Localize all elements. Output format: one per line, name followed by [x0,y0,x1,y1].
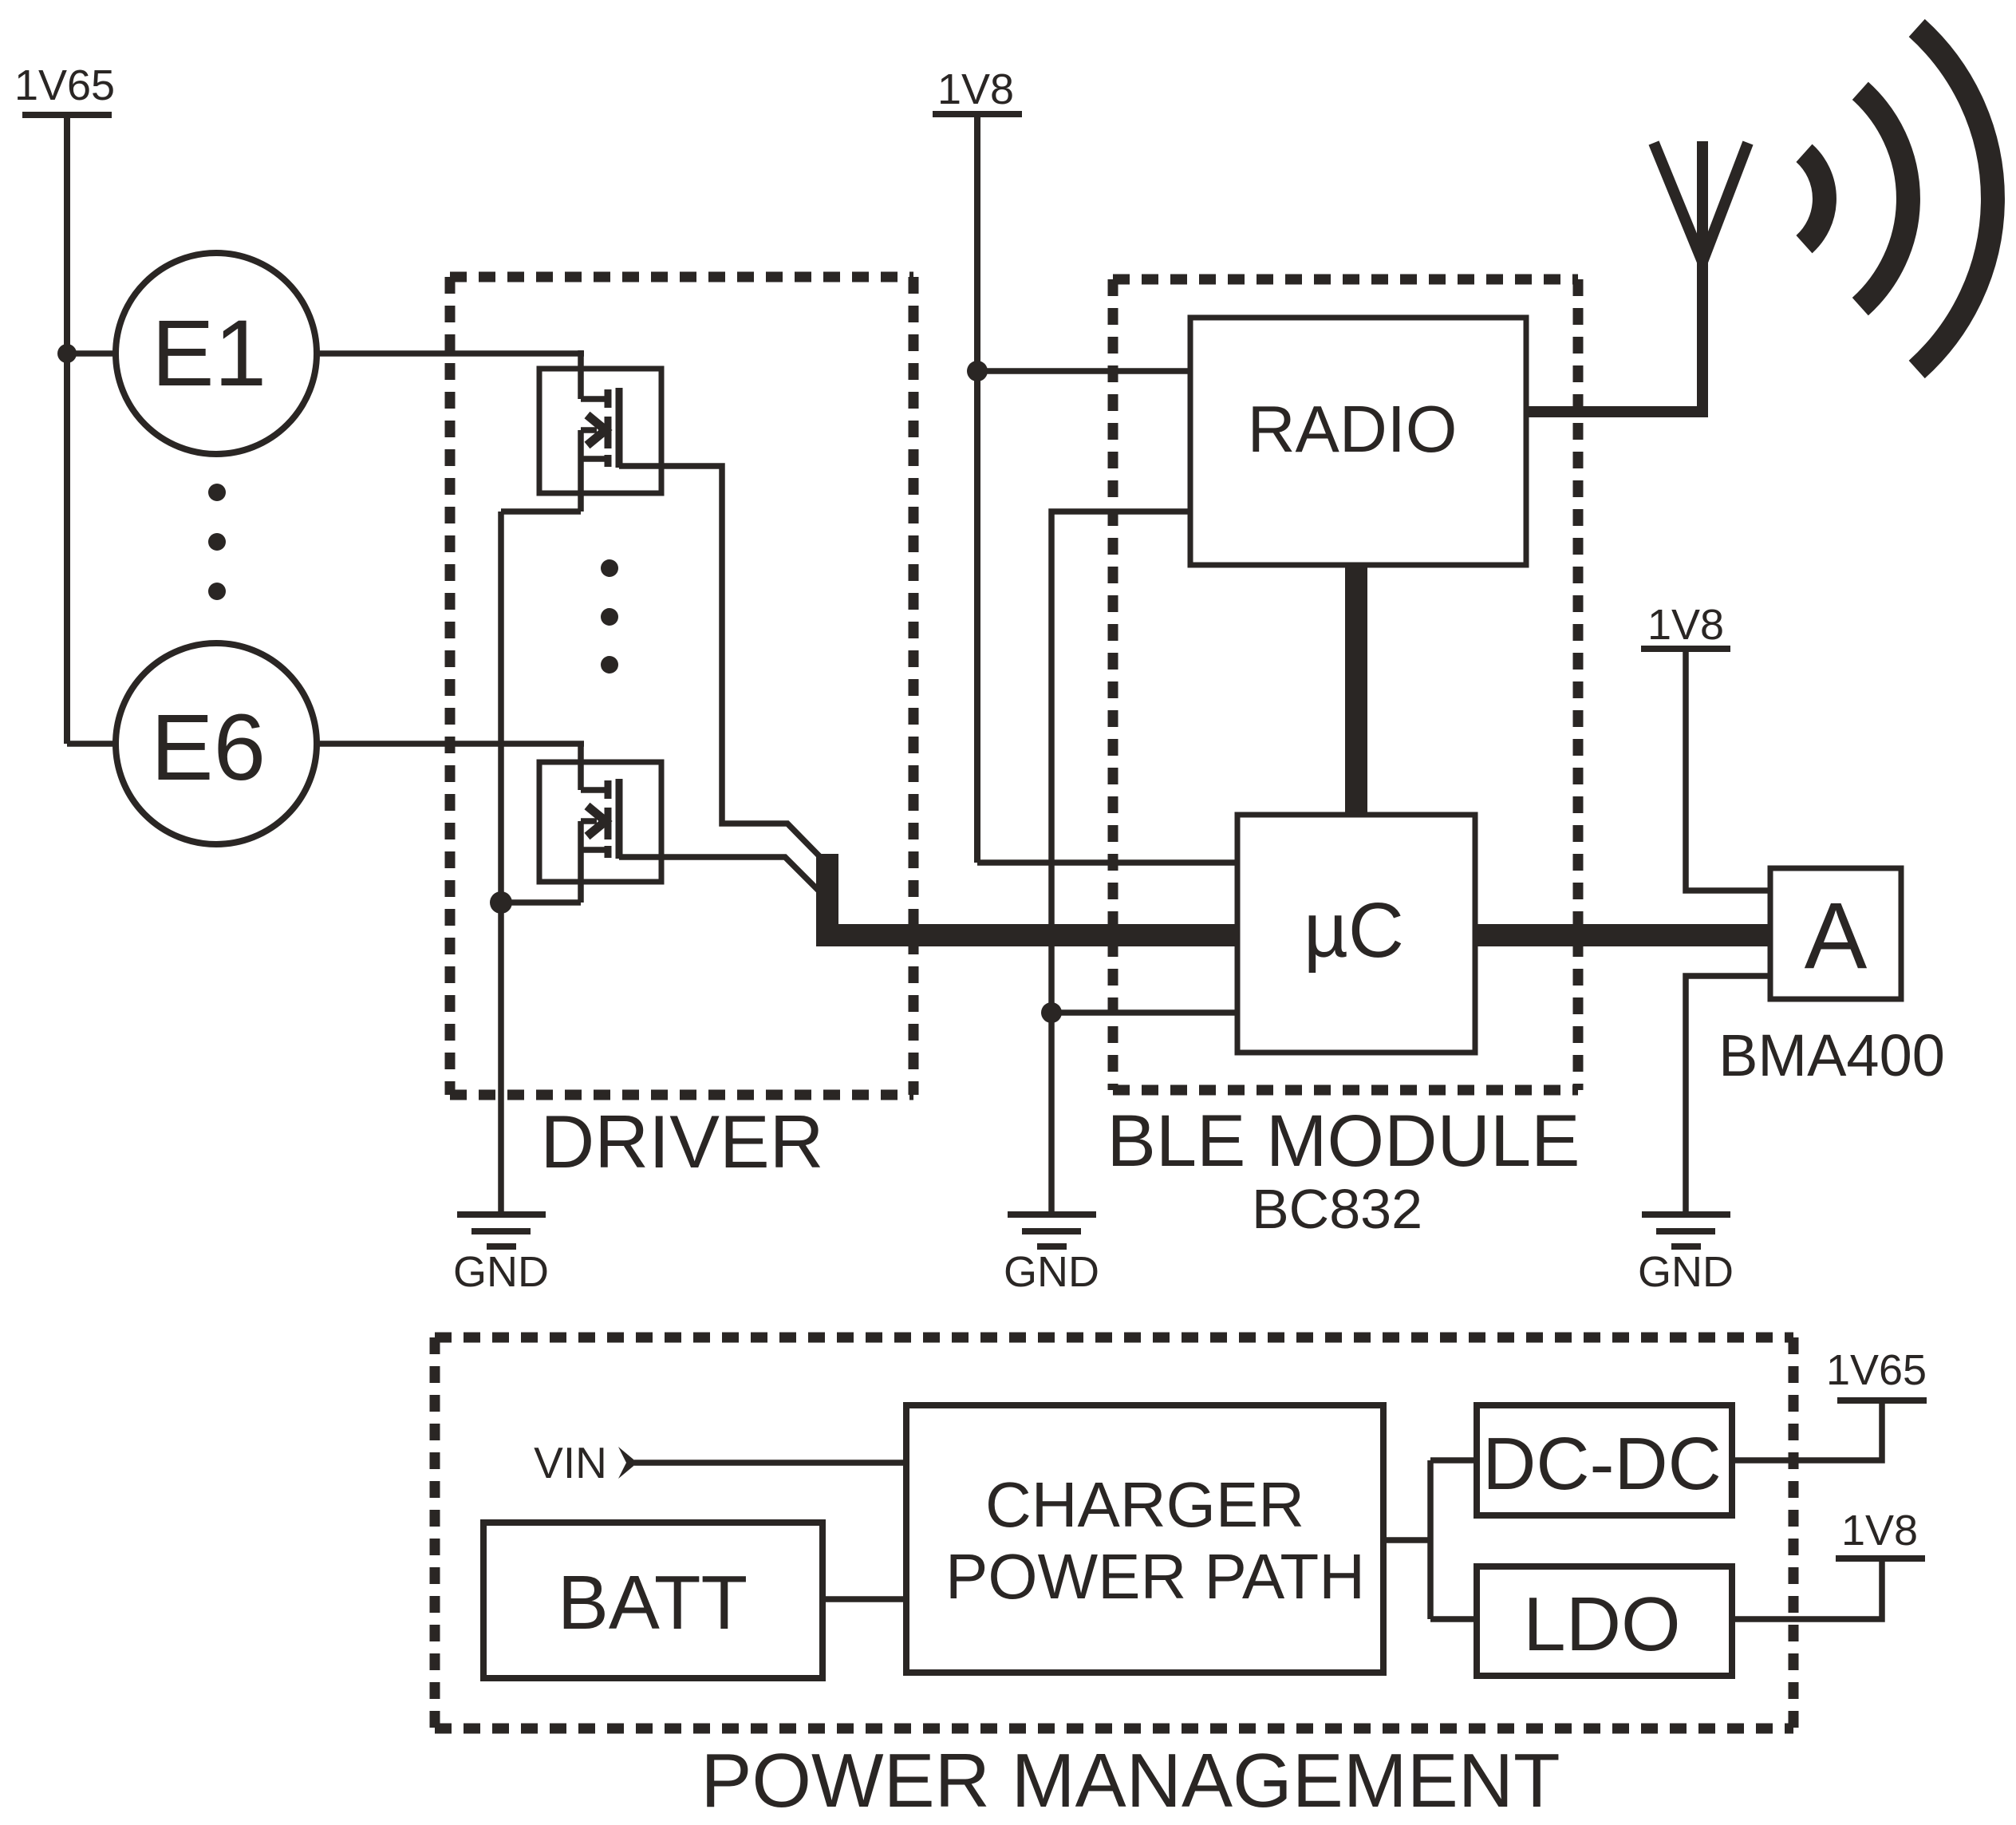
svg-text:1V8: 1V8 [1841,1507,1918,1554]
svg-text:BC832: BC832 [1252,1178,1422,1240]
transistor M2 (bottom MOSFET) [539,741,661,903]
antenna [1654,141,1748,412]
block uC [1237,815,1475,1053]
svg-text:1V65: 1V65 [14,61,115,109]
dashed box POWER MANAGEMENT [435,1337,1793,1728]
svg-text:RADIO: RADIO [1248,392,1458,466]
svg-text:A: A [1805,883,1868,989]
svg-text:1V65: 1V65 [1826,1346,1927,1394]
node 1V65 output [1837,1397,1927,1404]
svg-text:1V8: 1V8 [937,65,1014,113]
block DC-DC [1477,1405,1732,1515]
wire rail to E1 [67,350,117,357]
svg-text:E6: E6 [151,695,266,800]
block BATT [483,1523,823,1678]
ground GND driver [457,1215,546,1246]
wire RADIO lower input net [1051,512,1193,1215]
svg-text:BLE MODULE: BLE MODULE [1107,1100,1580,1182]
svg-text:POWER PATH: POWER PATH [945,1541,1365,1612]
wire BATT to charger [821,1596,909,1602]
block CHARGER POWER PATH [906,1405,1383,1673]
svg-text:GND: GND [1004,1248,1099,1296]
wire rail to E6 [67,741,117,747]
svg-text:DRIVER: DRIVER [540,1100,823,1183]
dashed box DRIVER [450,277,913,1095]
wire net to uC lower input [1051,1009,1241,1016]
ellipsis dots between M1 and M2 [601,559,618,674]
block RADIO [1190,318,1526,565]
svg-text:CHARGER: CHARGER [985,1469,1304,1540]
block A accelerometer [1770,868,1901,999]
node 1V8 output [1836,1555,1925,1562]
svg-text:µC: µC [1304,887,1404,974]
wire M1 gate to bus [619,466,827,864]
node 1V8 mid power rail [933,114,1022,863]
wire DC-DC to 1V65 [1732,1400,1882,1460]
svg-text:BMA400: BMA400 [1718,1022,1945,1088]
ellipsis dots between E1 and E6 [208,484,226,600]
rf waves [1805,28,1993,369]
svg-text:POWER MANAGEMENT: POWER MANAGEMENT [700,1738,1560,1823]
wire RADIO to antenna [1524,406,1708,417]
svg-text:BATT: BATT [558,1560,748,1645]
svg-text:LDO: LDO [1523,1582,1680,1667]
ground GND ble [1008,1215,1096,1246]
junction 1V8/RADIO [967,361,988,381]
wire M2 gate to bus [619,857,827,899]
electrode E6 [116,643,317,844]
svg-text:GND: GND [1638,1248,1734,1296]
electrode E1 [116,253,317,454]
svg-text:VIN: VIN [534,1438,607,1487]
svg-text:GND: GND [453,1248,549,1296]
transistor M1 (top MOSFET) [539,350,661,512]
node 1V8 right power rail [1641,649,1773,891]
junction net/uC [1041,1002,1062,1023]
svg-text:1V8: 1V8 [1647,601,1724,649]
wire M2 source to ground rail [501,899,581,906]
wire M1 source to ground rail [501,508,581,515]
wire 1V8 to uC [977,859,1241,866]
wire LDO to 1V8 [1732,1558,1882,1619]
junction rail/E1 [57,344,77,363]
wire A to ground [1686,976,1773,1215]
wire 1V8 to RADIO [977,368,1193,374]
block LDO [1477,1566,1732,1676]
junction source rail [490,891,512,914]
dashed box BLE MODULE [1113,279,1578,1090]
arrow VIN [618,1447,637,1479]
wire VIN to charger [634,1460,909,1466]
wire charger to regulators [1383,1460,1480,1619]
svg-text:E1: E1 [152,301,266,406]
node 1V65 top-left power rail [22,115,112,744]
svg-text:DC-DC: DC-DC [1482,1422,1722,1505]
wire E1 to M1 drain [317,350,584,357]
ground GND bma [1642,1215,1730,1246]
wire E6 to M2 drain [317,741,584,747]
bus gates to uC and uC to A [827,854,1770,935]
wire ground rail driver [498,512,504,1215]
bus RADIO to uC [1345,559,1367,822]
